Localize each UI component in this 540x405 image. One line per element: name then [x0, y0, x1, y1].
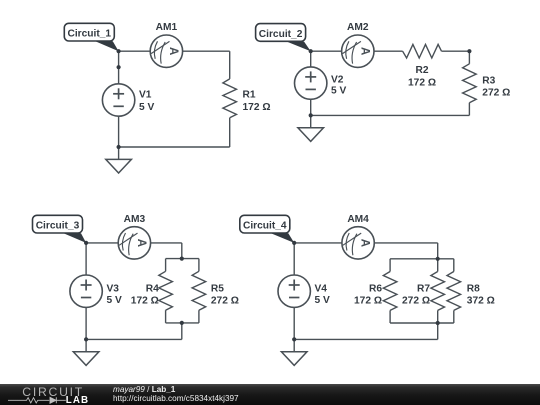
svg-text:172 Ω: 172 Ω [243, 102, 271, 113]
svg-text:AM2: AM2 [347, 22, 369, 33]
wire [166, 258, 199, 260]
ammeter AM2 [342, 22, 374, 67]
resistor R1 [223, 79, 237, 118]
svg-text:V1: V1 [139, 90, 152, 101]
svg-text:R5: R5 [211, 284, 224, 295]
node junction dot [467, 49, 471, 53]
svg-text:A: A [135, 239, 147, 247]
resistor R8 [447, 272, 461, 311]
label R1 value [243, 90, 271, 114]
node junction dot [84, 337, 88, 341]
node junction dot [309, 49, 313, 53]
wire [468, 51, 470, 64]
svg-text:Circuit_3: Circuit_3 [36, 221, 80, 232]
svg-text:A: A [358, 47, 370, 55]
node junction dot [117, 49, 121, 53]
wire [453, 310, 455, 323]
wire [229, 51, 231, 79]
wire [311, 50, 342, 52]
wire [86, 338, 182, 340]
label R7 value [402, 284, 430, 307]
wire [374, 50, 403, 52]
ammeter AM3 [118, 214, 150, 259]
node name flag Circuit_1 [64, 23, 118, 51]
wire [310, 51, 312, 67]
node junction dot [117, 65, 121, 69]
svg-text:272 Ω: 272 Ω [211, 296, 239, 307]
svg-text:372 Ω: 372 Ω [467, 296, 495, 307]
node name flag Circuit_2 [256, 24, 311, 52]
voltage source V2 5 V [295, 67, 347, 99]
svg-text:5 V: 5 V [139, 102, 154, 113]
node junction dot [309, 113, 313, 117]
node name flag Circuit_4 [240, 215, 294, 243]
wire [183, 50, 230, 52]
wire [181, 243, 183, 259]
wire [165, 310, 167, 323]
svg-text:R6: R6 [369, 284, 382, 295]
svg-text:AM4: AM4 [347, 214, 369, 225]
wire [453, 259, 455, 272]
svg-text:R3: R3 [482, 75, 495, 86]
svg-text:LAB: LAB [66, 395, 89, 405]
svg-text:R1: R1 [243, 90, 256, 101]
svg-text:172 Ω: 172 Ω [131, 296, 159, 307]
svg-text:A: A [167, 47, 179, 55]
svg-text:AM3: AM3 [124, 214, 146, 225]
resistor R2 [403, 44, 442, 58]
ground [106, 147, 132, 173]
wire [118, 116, 120, 147]
wire [293, 307, 295, 339]
svg-text:5 V: 5 V [331, 85, 346, 96]
wire [229, 118, 231, 147]
svg-text:R7: R7 [417, 284, 430, 295]
svg-text:172 Ω: 172 Ω [408, 78, 436, 89]
wire [442, 50, 470, 52]
node junction dot [180, 321, 184, 325]
node junction dot [436, 321, 440, 325]
wire [437, 259, 439, 272]
svg-text:172 Ω: 172 Ω [354, 296, 382, 307]
ammeter AM4 [342, 214, 374, 259]
footer bar [0, 384, 540, 405]
CircuitLab logo [0, 384, 110, 405]
node name flag Circuit_3 [33, 215, 87, 243]
voltage source V3 5 V [70, 275, 122, 307]
resistor R4 [159, 271, 173, 310]
footer attribution text [113, 385, 239, 403]
svg-text:Circuit_4: Circuit_4 [243, 221, 287, 232]
wire [389, 259, 391, 272]
resistor R3 [463, 64, 477, 103]
wire [468, 103, 470, 116]
wire [294, 242, 342, 244]
resistor R7 [431, 272, 445, 311]
node junction dot [84, 241, 88, 245]
wire [437, 310, 439, 323]
ground [298, 115, 324, 141]
wire [437, 323, 439, 339]
wire [119, 50, 151, 52]
voltage source V4 5 V [278, 275, 330, 307]
wire [198, 310, 200, 323]
svg-text:V2: V2 [331, 75, 344, 86]
node junction dot [180, 257, 184, 261]
label R8 value [467, 284, 495, 307]
ground [281, 339, 307, 365]
svg-text:R4: R4 [146, 284, 159, 295]
resistor R5 [192, 271, 206, 310]
svg-text:A: A [359, 239, 371, 247]
wire [374, 242, 437, 244]
resistor R6 [383, 272, 397, 311]
svg-text:AM1: AM1 [156, 22, 178, 33]
wire [310, 99, 312, 115]
node junction dot [292, 241, 296, 245]
label R4 value [131, 284, 159, 307]
wire [390, 258, 454, 260]
wire [165, 259, 167, 272]
wire [85, 243, 87, 275]
svg-text:5 V: 5 V [315, 295, 330, 306]
svg-text:V4: V4 [315, 284, 328, 295]
svg-text:Circuit_2: Circuit_2 [259, 29, 303, 40]
wire [166, 322, 199, 324]
svg-text:R8: R8 [467, 284, 480, 295]
wire [181, 323, 183, 340]
voltage source V1 5 V [102, 84, 154, 116]
ammeter AM1 [150, 22, 182, 67]
svg-text:272 Ω: 272 Ω [482, 88, 510, 99]
wire [311, 114, 470, 116]
ground [73, 339, 99, 365]
wire [86, 242, 118, 244]
label R2 value [408, 65, 436, 89]
label R5 value [211, 284, 239, 307]
node junction dot [436, 257, 440, 261]
label R6 value [354, 284, 382, 307]
wire [390, 322, 454, 324]
node junction dot [292, 337, 296, 341]
wire [437, 243, 439, 259]
svg-text:V3: V3 [107, 284, 120, 295]
wire [118, 51, 120, 84]
label R3 value [482, 75, 510, 98]
node junction dot [117, 145, 121, 149]
wire [119, 146, 230, 148]
wire [293, 243, 295, 275]
wire [389, 310, 391, 323]
svg-text:272 Ω: 272 Ω [402, 296, 430, 307]
wire [151, 242, 182, 244]
wire [198, 259, 200, 272]
svg-text:5 V: 5 V [107, 295, 122, 306]
svg-text:Circuit_1: Circuit_1 [67, 29, 111, 40]
wire [85, 307, 87, 339]
svg-text:R2: R2 [415, 65, 428, 76]
wire [294, 338, 438, 340]
